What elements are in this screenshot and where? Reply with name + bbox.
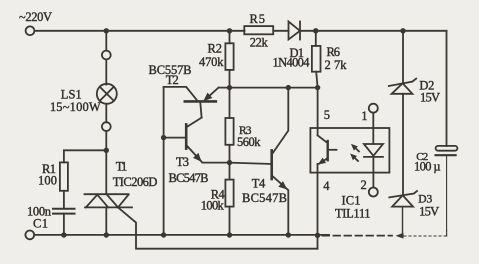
label 100k [201, 199, 225, 213]
label R5 [250, 12, 266, 26]
transistor T4 [230, 88, 289, 235]
label ~220V [19, 10, 52, 24]
label 2.7k [325, 58, 348, 72]
svg-text:IC1: IC1 [342, 194, 361, 208]
phototransistor IC1 [318, 135, 337, 164]
label T4 [252, 177, 266, 191]
terminal pin 1 [369, 104, 378, 113]
lamp LS1 [97, 84, 117, 104]
wire T2 collector column [163, 87, 165, 235]
transistor T3 [164, 118, 230, 163]
label pin 4 [323, 179, 330, 193]
svg-text:1: 1 [361, 109, 367, 123]
svg-text:C1: C1 [33, 216, 48, 230]
svg-text:R2: R2 [208, 42, 223, 56]
label D2 [419, 79, 434, 93]
svg-text:5: 5 [324, 108, 330, 122]
label 1N4004 [273, 56, 311, 70]
node junction lamp top [104, 28, 109, 33]
wire R3 bottom lead [229, 145, 231, 163]
label R6 [327, 45, 341, 59]
svg-text:100 µ: 100 µ [414, 160, 441, 174]
label 100u [414, 160, 441, 174]
svg-text:2 7k: 2 7k [325, 58, 348, 72]
label C2 [416, 151, 428, 163]
label 100 [38, 174, 57, 188]
transistor T2 [164, 87, 219, 118]
wire C1 to rail [63, 214, 65, 235]
label 560k [237, 135, 261, 149]
wire lamp to connector [105, 104, 107, 122]
wire R3 top lead [229, 88, 231, 118]
svg-text:560k: 560k [237, 135, 261, 149]
svg-text:T4: T4 [252, 177, 266, 191]
node junction D1/R6 [313, 28, 318, 33]
node bus R2 [227, 85, 232, 90]
resistor R6 [312, 46, 321, 72]
wire pin4 lead [317, 164, 319, 249]
label 22k [250, 35, 269, 49]
svg-text:BC547B: BC547B [242, 191, 287, 205]
zener D2 [389, 79, 416, 94]
node R4 rail [227, 232, 232, 237]
wire top rail right [300, 30, 447, 32]
wire R2 top lead [229, 31, 231, 44]
wire pin2 lead [372, 157, 374, 188]
label R2 [208, 42, 223, 56]
diode D1 [289, 22, 301, 40]
svg-text:22k: 22k [250, 35, 269, 49]
label TIL111 [335, 206, 371, 220]
svg-text:BC547B: BC547B [169, 171, 209, 185]
IC1 box [310, 128, 389, 173]
label BC547B T4 [242, 191, 287, 205]
label IC1 [342, 194, 361, 208]
label T1 [116, 160, 128, 174]
svg-text:15V: 15V [419, 205, 439, 219]
label LS1 [61, 88, 82, 102]
label R1 [42, 162, 56, 176]
lamp connector top [102, 51, 111, 60]
capacitor C2 [436, 146, 458, 155]
node C1 rail [61, 232, 66, 237]
label BC547B T3 [169, 171, 209, 185]
node bus R6 [315, 85, 320, 90]
svg-text:~220V: ~220V [19, 10, 52, 24]
node junction R1 branch [104, 148, 109, 153]
node T4 emitter rail [286, 232, 291, 237]
svg-text:470k: 470k [199, 55, 224, 69]
triac T1 [85, 194, 133, 207]
node T3 base junction [161, 135, 166, 140]
svg-text:100k: 100k [201, 199, 225, 213]
wire pin1 lead [372, 113, 374, 144]
wire R4 leads [229, 163, 231, 235]
zener D3 [389, 191, 417, 207]
svg-text:15V: 15V [420, 91, 440, 105]
LED IC1 [364, 144, 383, 157]
svg-text:R6: R6 [327, 45, 341, 59]
node junction R2/R5 [227, 28, 232, 33]
svg-text:1N4004: 1N4004 [273, 56, 311, 70]
label 15V D2 [420, 91, 440, 105]
svg-text:100: 100 [38, 174, 57, 188]
resistor R3 [225, 118, 233, 145]
node bus T4 collector [286, 85, 291, 90]
resistor R2 [225, 43, 233, 70]
svg-text:D3: D3 [418, 193, 432, 205]
wire bottom rail dashed [323, 235, 393, 237]
label T3 [176, 155, 189, 169]
label R4 [211, 188, 226, 202]
resistor R1 [60, 162, 68, 190]
svg-text:15~100W: 15~100W [50, 100, 101, 114]
label T2 [166, 73, 179, 87]
wire C2 bottom lead [446, 156, 448, 236]
wire pin5 lead [317, 88, 319, 136]
terminal ~220V top [26, 26, 35, 35]
label 470k [199, 55, 224, 69]
svg-text:TIC206D: TIC206D [113, 175, 158, 189]
wire R1 branch [64, 150, 106, 162]
label R3 [239, 125, 252, 137]
wire triac gate [118, 207, 318, 248]
resistor R4 [225, 180, 233, 207]
wire R5 to D1 [274, 30, 289, 32]
resistor R5 [244, 26, 273, 34]
svg-text:2: 2 [361, 178, 367, 192]
wire bottom rail dotted [404, 230, 447, 236]
wire lamp branch upper [105, 31, 107, 51]
node left column rail [161, 232, 166, 237]
terminal pin 2 [369, 188, 378, 197]
wire C2 top lead [446, 31, 448, 146]
wire R6 leads [316, 31, 318, 88]
wire D2 to D3 [402, 94, 404, 195]
node triac rail [104, 232, 109, 237]
wire R2 bottom lead [229, 70, 231, 88]
wire bus T2 emitter to R6 [219, 87, 318, 89]
node junction D2 top [400, 28, 405, 33]
svg-text:4: 4 [323, 179, 330, 193]
node R3/R4/T4 base [227, 160, 232, 165]
svg-text:T2: T2 [166, 73, 179, 87]
label pin 2 [361, 178, 367, 192]
label 100n [27, 204, 52, 218]
label D1 [290, 46, 305, 60]
wire D3 bottom lead [402, 207, 404, 236]
wire triac MT1 to rail [105, 207, 107, 235]
wire D2 top lead [402, 31, 404, 84]
capacitor C1 [53, 209, 75, 214]
terminal ~220V bottom [25, 231, 34, 240]
lamp connector bottom [102, 122, 111, 131]
label TIC206D [113, 175, 158, 189]
label C1 [33, 216, 48, 230]
label BC557B [149, 63, 192, 77]
wire lamp to triac [105, 131, 107, 194]
label D3 [418, 193, 432, 205]
wire connector to lamp [105, 59, 107, 84]
light arrows IC1 [351, 145, 359, 161]
label pin 5 [324, 108, 330, 122]
svg-text:TIL111: TIL111 [335, 206, 371, 220]
label 15V D3 [419, 205, 439, 219]
wire R1 to C1 [63, 191, 65, 209]
label 15~100W [50, 100, 101, 114]
wire top rail left [34, 30, 244, 32]
wire arrow bottom rail [396, 233, 404, 239]
svg-text:R5: R5 [250, 12, 266, 26]
svg-text:T3: T3 [176, 155, 189, 169]
svg-text:T1: T1 [116, 160, 128, 174]
node gate column rail [315, 233, 320, 238]
label pin 1 [361, 109, 367, 123]
wire bottom rail [34, 234, 329, 236]
